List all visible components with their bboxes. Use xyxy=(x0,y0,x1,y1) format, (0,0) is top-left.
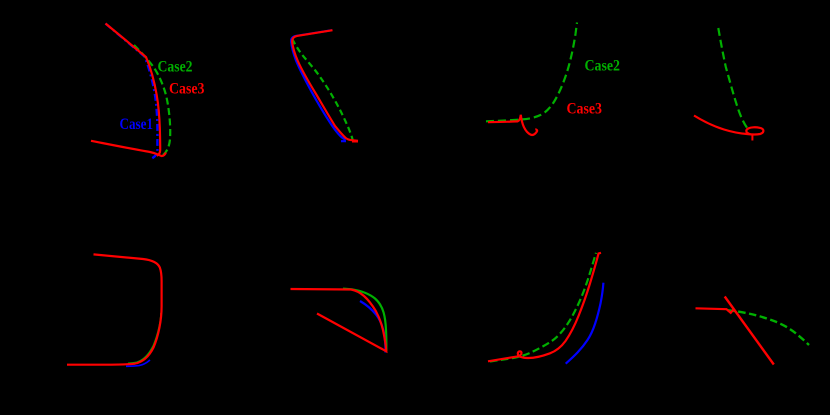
panel 5 curve Case3 red xyxy=(67,254,162,364)
panel 5 curve Case1 blue under xyxy=(126,360,150,366)
panel 4 curve Case2 green dashed xyxy=(718,28,748,130)
panel 7 curve Case2 green dashed xyxy=(490,253,596,362)
panel 7 curve Case1 blue xyxy=(566,283,604,364)
panel 4 curve Case3 red with loop xyxy=(694,116,763,135)
panel 1 curve Case1 blue dashed xyxy=(106,24,158,159)
svg-text:Case1: Case1 xyxy=(120,116,154,133)
panel 1 curve Case3 red lower line xyxy=(91,141,166,156)
panel 6 curve Case3 red xyxy=(291,289,387,351)
panel 2 curve Case2 green dashed xyxy=(292,39,352,140)
panel 6 curve Case1 blue xyxy=(360,301,386,353)
panel 2 curve Case3 red xyxy=(292,30,358,141)
panel 3 curve Case2 green dashed xyxy=(486,23,577,122)
panel 7 curve Case3 red with loop xyxy=(488,253,601,361)
panel 4 red stub xyxy=(751,134,753,141)
svg-text:Case3: Case3 xyxy=(169,80,205,97)
panel 8 curve Case2 green dashed xyxy=(727,310,809,345)
panel 1 curve Case3 red upper xyxy=(106,24,161,156)
panel 8 curve Case3 red diagonal xyxy=(725,297,774,365)
panel 5 curve Case2 green under xyxy=(128,313,161,363)
panel 1 curve Case2 green dashed xyxy=(134,45,170,156)
panel 3 curve Case3 red xyxy=(488,115,537,135)
panel 2 curve Case1 blue xyxy=(291,30,346,141)
panel 8 curve Case3 red horizontal xyxy=(696,308,734,313)
panel 6 curve Case2 green xyxy=(343,289,386,351)
svg-text:Case3: Case3 xyxy=(567,101,603,118)
svg-text:Case2: Case2 xyxy=(585,58,621,75)
svg-text:Case2: Case2 xyxy=(158,58,193,75)
